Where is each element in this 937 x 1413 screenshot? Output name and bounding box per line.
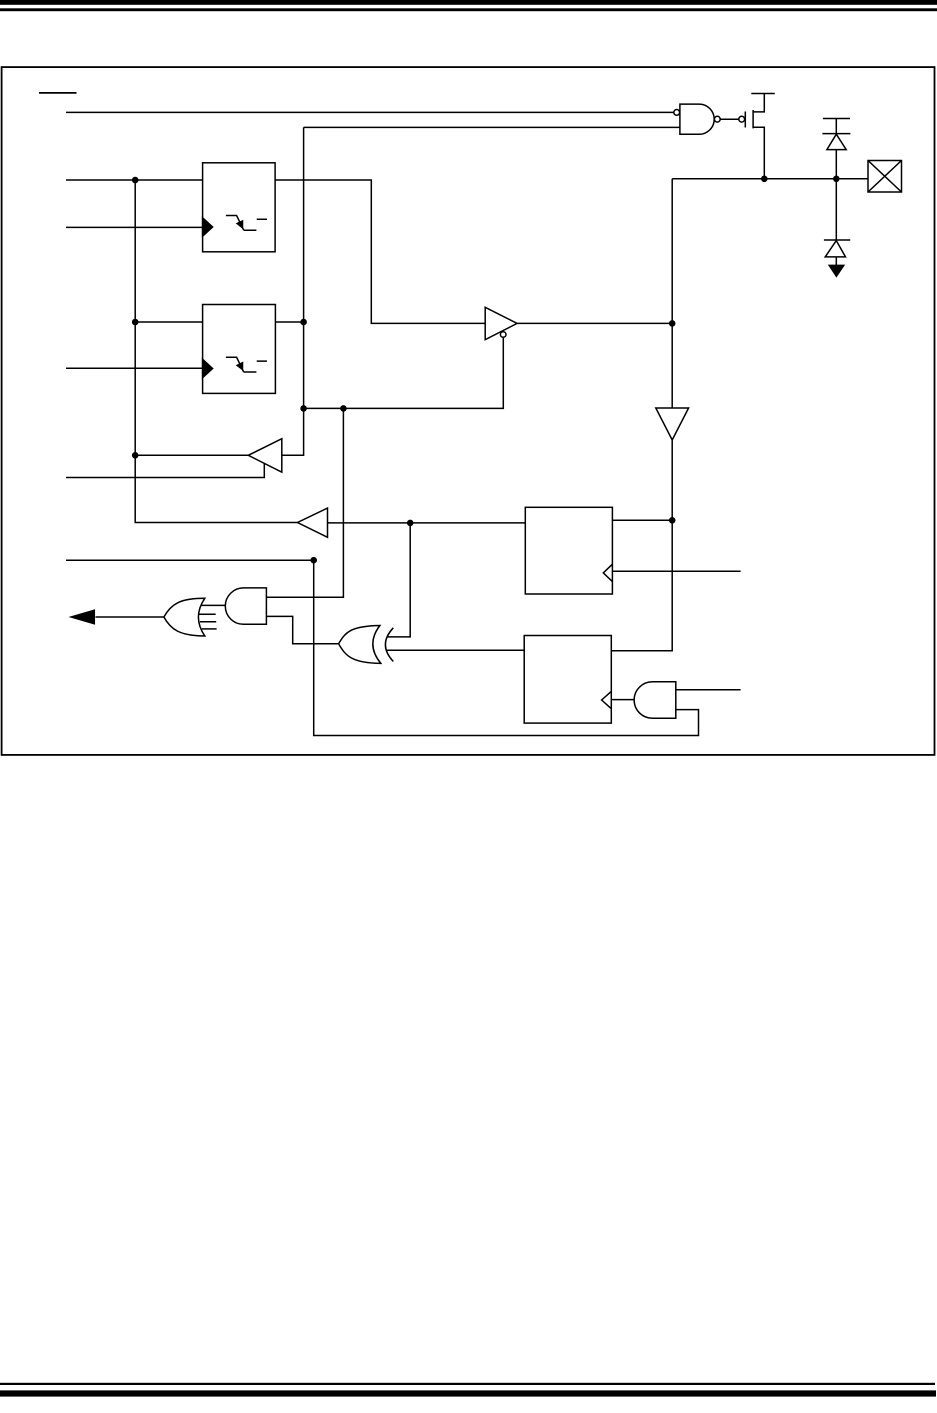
buffer A left bbox=[248, 439, 281, 473]
node dot FF1 Q bbox=[669, 517, 676, 524]
box U1 edge detect bbox=[203, 163, 276, 252]
wire node D to XOR top input bbox=[387, 523, 410, 637]
wire input to box U1 bbox=[66, 179, 203, 181]
tri-state buffer U4 bbox=[485, 307, 517, 339]
AND gate AND2 bbox=[634, 682, 676, 719]
wire AND2 output to FF2 clock bbox=[611, 699, 634, 701]
node dot PMOS drain bbox=[761, 176, 768, 183]
node dot pin net at U2 input bbox=[132, 319, 139, 326]
wire tri-state buffer output bbox=[517, 322, 672, 324]
ground arrow bbox=[829, 265, 844, 276]
wire enable input to buffer A bbox=[66, 463, 264, 477]
OR1 input hatch line 3 bbox=[202, 628, 217, 630]
node dot enable net bbox=[300, 405, 307, 412]
wire data-in to NAND top input bbox=[66, 111, 674, 113]
diode D2 to VSS bbox=[824, 240, 850, 257]
flip-flop FF2 bbox=[524, 636, 611, 724]
node dot U2 output bbox=[300, 319, 307, 326]
wire box U1 output to tri-state buffer bbox=[275, 180, 485, 323]
pad X-box bbox=[868, 161, 902, 193]
box U2 falling edge symbol bbox=[226, 357, 267, 372]
box U2 edge detect bbox=[203, 305, 276, 394]
wire buffer A output bbox=[135, 454, 248, 456]
wire clock input to box U1 bbox=[66, 226, 202, 228]
wire box U2 input bbox=[135, 321, 202, 323]
node dot AND1 branch bbox=[340, 405, 347, 412]
wire NAND bottom input bbox=[304, 126, 680, 128]
wire input line to node F bbox=[66, 559, 314, 561]
node dot pad diode tap bbox=[833, 176, 840, 183]
page top thick rule bbox=[0, 0, 937, 5]
wire enable net bbox=[304, 338, 504, 409]
AND gate AND1 bbox=[225, 588, 266, 624]
wire pad vertical to down buffer bbox=[671, 179, 673, 408]
node dot tri-state output bbox=[669, 320, 676, 327]
OR1 input hatch line 2 bbox=[200, 621, 216, 623]
wire down buffer output vertical bbox=[611, 440, 672, 651]
wire AND2 top input bbox=[676, 689, 741, 691]
figure frame bbox=[2, 67, 935, 755]
wire box U2 output bbox=[275, 321, 303, 323]
node dot pin net at buffer A output bbox=[132, 452, 139, 459]
wire diode stack vertical bbox=[835, 119, 837, 267]
transistor Q1 PMOS bbox=[739, 94, 775, 129]
wire XOR bottom input to FF2 bbox=[387, 649, 524, 651]
node dot feedback corner bbox=[310, 557, 317, 564]
wire AND1 output to OR1 input bbox=[201, 604, 225, 606]
bus output arrow bbox=[71, 610, 94, 623]
OR gate OR1 bbox=[164, 598, 205, 636]
OR1 input hatch line 1 bbox=[199, 613, 216, 615]
wire vertical node B riser bbox=[282, 127, 304, 455]
net label overline bbox=[39, 92, 77, 94]
page bottom thick rule bbox=[0, 1390, 936, 1396]
wire clock input to box U2 bbox=[66, 367, 202, 369]
node dot pin net at U1 input bbox=[132, 177, 139, 184]
wire OR1 output to bus arrow bbox=[96, 616, 164, 618]
page top thin rule bbox=[0, 8, 937, 11]
wire pin input net vertical bbox=[135, 180, 297, 523]
buffer B left bbox=[298, 508, 328, 537]
wire FF1 clock line bbox=[612, 570, 740, 572]
wire vertical to AND1 top input bbox=[266, 408, 343, 597]
wire NAND output to PMOS gate bbox=[720, 118, 738, 120]
box U1 falling edge symbol bbox=[226, 216, 267, 231]
XOR gate X1 bbox=[339, 626, 394, 664]
node dot FF1 D branch bbox=[407, 520, 414, 527]
page bottom thin rule bbox=[0, 1383, 935, 1385]
wire FF1 Q output bbox=[612, 519, 672, 521]
wire PMOS drain to pad bbox=[753, 127, 764, 179]
down buffer U5 bbox=[656, 408, 689, 440]
wire PMOS source to VDD bbox=[753, 94, 764, 112]
flip-flop FF1 bbox=[525, 507, 612, 594]
wire XOR output to AND1 bottom input bbox=[266, 616, 338, 643]
wire buffer B input to FF1 D bbox=[328, 522, 526, 524]
wire pad line bbox=[672, 178, 868, 180]
NAND gate U3 bbox=[674, 104, 720, 134]
diode D1 to VDD bbox=[822, 119, 850, 150]
wire AND2 bottom input feedback bbox=[314, 560, 699, 735]
